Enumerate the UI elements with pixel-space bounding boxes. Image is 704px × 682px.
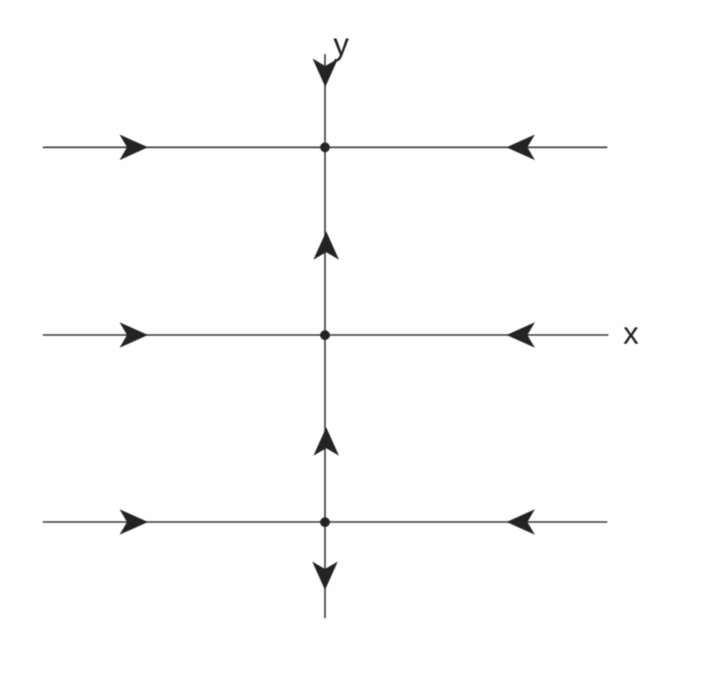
arrowhead: row2 right side pointing left [506,322,535,348]
arrowhead: row1 right side pointing left [506,135,535,161]
label: x-axis label "x" [624,327,639,343]
arrowhead: row3 right side pointing left [506,509,535,535]
node: equilibrium dot (0,-1) [320,517,330,527]
arrowhead: y-axis bottom pointing down [312,562,338,591]
arrowhead: row1 left side pointing right [120,135,149,161]
wire: top horizontal trajectory line y=1 [43,146,608,148]
arrowhead: y-axis upper-middle pointing up [313,231,339,260]
node: equilibrium dot (0,0) origin [320,330,330,340]
wire: bottom horizontal trajectory line y=-1 [43,521,608,523]
wire: y-axis vertical line [324,54,326,618]
node: equilibrium dot (0,1) [320,142,330,152]
arrowhead: row2 left side pointing right [120,322,149,348]
label: y-axis label "y" [333,39,348,62]
arrowhead: y-axis top pointing down [313,59,339,88]
arrowhead: y-axis lower-middle pointing up [313,427,339,456]
wire: x-axis horizontal line y=0 [43,334,609,336]
arrowhead: row3 left side pointing right [120,509,149,535]
